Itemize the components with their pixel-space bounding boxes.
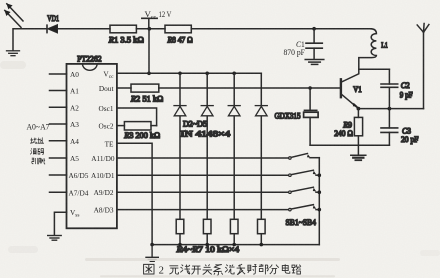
resistor R1 [110, 25, 136, 33]
wire row A9/D2 [117, 191, 288, 193]
wire row A10/D1 [117, 174, 288, 176]
ground (Vss) [48, 236, 62, 241]
resistor R4 [176, 219, 184, 233]
inductor L1 [359, 29, 377, 70]
node col2 top [205, 72, 209, 76]
crystal GDX315 [304, 88, 319, 145]
ground (C1) [305, 60, 324, 65]
wire top rail to L1 [191, 28, 371, 30]
switch SB4 [289, 205, 320, 211]
diode D5 [255, 106, 267, 116]
wire 12V down to Vcc rail [148, 29, 150, 74]
resistor R3 [117, 122, 157, 130]
resistor R6 [230, 219, 238, 233]
capacitor C3 [381, 109, 398, 146]
antenna [417, 24, 429, 109]
wire row A8/D3 [117, 209, 288, 211]
pin Vss stub and ground wire [54, 212, 66, 235]
resistor R2 [117, 84, 341, 92]
diode column 3 [233, 73, 235, 219]
stubs resistors to rail [180, 234, 261, 245]
diode D2 [174, 106, 186, 116]
emitter row wire [358, 108, 423, 110]
resistor R8 [165, 25, 191, 33]
node rail r4 [178, 243, 182, 247]
scan smudges [0, 61, 440, 277]
node C2/C3 junction [388, 107, 392, 111]
pin A7/D4 stub [50, 191, 67, 193]
switch SB3 [289, 187, 320, 193]
caption: tu 2 (figure 2) [144, 264, 154, 274]
ground rail bottom [152, 244, 319, 246]
pin A3 stub [50, 123, 67, 125]
node sw2 [318, 173, 322, 177]
RF radiation arrows top-left [4, 3, 23, 27]
wire TE down to ground rail [117, 143, 152, 244]
pin A1 stub [50, 90, 67, 92]
node emitter junction [357, 107, 361, 111]
diode VD1 [47, 25, 110, 33]
ground (rail) [146, 245, 158, 262]
wire R1 to R8 with Vcc junction [136, 28, 165, 30]
resistor R7 [258, 219, 266, 233]
wire Vcc pin rail [117, 72, 261, 74]
node 12V to Vcc pin [147, 72, 151, 76]
switch SB1 [289, 154, 320, 160]
wire GDX bottom row [310, 144, 389, 146]
resistor R9 [354, 109, 362, 155]
IC U1 PT2262 box [67, 64, 117, 228]
node rail r6 [232, 243, 236, 247]
transistor V1 [341, 69, 390, 108]
diode column 1 [179, 73, 181, 219]
pin labels left [69, 70, 89, 219]
label A0~A7 annotation [27, 123, 50, 132]
diode D3 [201, 106, 213, 116]
diode D4 [228, 106, 240, 116]
pin A6/D5 stub [50, 174, 67, 176]
wire switch common vertical [318, 158, 320, 245]
pin A0 stub [50, 73, 67, 75]
node rail r7 [260, 243, 264, 247]
diode column 2 [206, 73, 208, 219]
node col1 top [178, 72, 182, 76]
wire ground to VD1 [13, 29, 47, 51]
label dizhi bianma yinjiao (Chinese: address coding pins) [30, 137, 45, 164]
node col3 top [232, 72, 236, 76]
node sw4 [318, 208, 322, 212]
capacitor C1 [306, 29, 322, 60]
node C1 junction [312, 27, 316, 31]
node GDX top junction [308, 86, 312, 90]
capacitor C2 [381, 69, 398, 108]
resistor R5 [203, 219, 211, 233]
diode column 4 [260, 73, 262, 219]
ground (R9) [351, 155, 366, 160]
switch SB2 [289, 170, 320, 176]
Vcc 12V terminal [142, 17, 157, 19]
node sw3 [318, 190, 322, 194]
ground (top-left) [7, 51, 20, 56]
wire row A11/D0 [117, 157, 288, 159]
pin A2 stub [50, 106, 67, 108]
pin A5 stub [50, 157, 67, 159]
pin labels right [91, 69, 115, 214]
pin A4 stub [50, 140, 67, 142]
wire Osc1 loop [117, 108, 157, 126]
node rail r5 [205, 243, 209, 247]
caption: wuxian kaiguan xitong fashe bufen dianlu [169, 264, 300, 275]
node Vcc junction [148, 27, 152, 31]
node rail left [150, 243, 154, 247]
